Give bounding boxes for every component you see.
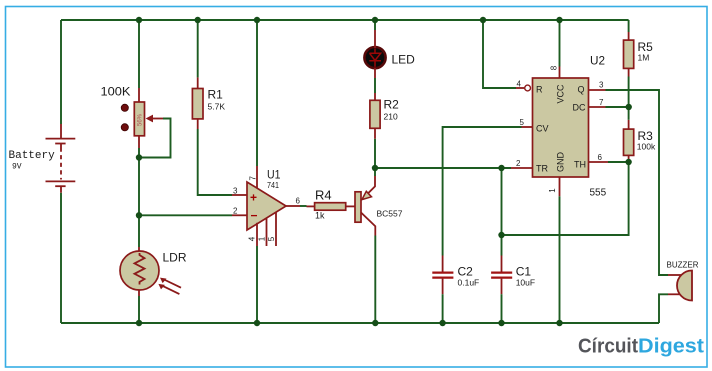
wire LDR bottom bbox=[138, 296, 140, 323]
svg-text:5: 5 bbox=[267, 236, 276, 241]
svg-text:56%: 56% bbox=[138, 113, 144, 126]
svg-text:1k: 1k bbox=[315, 210, 325, 220]
wire pot top bbox=[138, 20, 140, 88]
junction bottom C1 bbox=[498, 320, 504, 326]
svg-text:BC557: BC557 bbox=[377, 209, 403, 219]
svg-text:4: 4 bbox=[517, 80, 522, 89]
svg-text:−: − bbox=[251, 209, 258, 223]
wire trigger net bbox=[375, 167, 511, 169]
junction top VCC bbox=[556, 17, 562, 23]
svg-text:0.1uF: 0.1uF bbox=[458, 277, 480, 287]
svg-text:DC: DC bbox=[573, 102, 586, 112]
timer U2 555 bbox=[511, 53, 608, 198]
svg-text:1M: 1M bbox=[638, 52, 650, 62]
junction top pot bbox=[136, 17, 142, 23]
svg-text:2: 2 bbox=[233, 207, 238, 216]
svg-text:R1: R1 bbox=[208, 87, 224, 101]
resistor R5 1M bbox=[624, 32, 654, 77]
svg-text:LDR: LDR bbox=[163, 250, 187, 264]
wire R3 top bbox=[628, 107, 630, 120]
wire LED top bbox=[374, 20, 376, 30]
junction top R1 bbox=[195, 17, 201, 23]
svg-text:C2: C2 bbox=[458, 265, 474, 279]
svg-text:5.7K: 5.7K bbox=[208, 101, 226, 111]
svg-text:1: 1 bbox=[548, 188, 557, 193]
resistor R1 5.7K bbox=[192, 77, 225, 129]
wire Q output to buzzer bbox=[606, 90, 669, 275]
junction C1 threshold bbox=[498, 232, 504, 238]
svg-text:LED: LED bbox=[392, 53, 416, 67]
svg-text:Digest: Digest bbox=[638, 336, 704, 358]
svg-text:GND: GND bbox=[556, 152, 566, 173]
wire R1 to non-inverting input bbox=[198, 129, 232, 195]
svg-text:3: 3 bbox=[233, 186, 238, 195]
wire op-amp output bbox=[300, 205, 307, 207]
svg-text:R4: R4 bbox=[315, 187, 332, 202]
svg-text:C1: C1 bbox=[516, 265, 532, 279]
wire battery top bbox=[60, 20, 62, 124]
svg-text:VCC: VCC bbox=[556, 84, 566, 104]
potentiometer RV1 100K bbox=[101, 85, 164, 149]
svg-text:Q: Q bbox=[577, 84, 584, 94]
svg-text:BUZZER: BUZZER bbox=[667, 261, 699, 270]
junction trigger node bbox=[372, 165, 378, 171]
wire pot bottom to LDR bbox=[138, 148, 140, 247]
svg-text:9V: 9V bbox=[12, 163, 22, 172]
wire top rail bbox=[61, 19, 629, 21]
junction bottom collector bbox=[372, 320, 378, 326]
resistor R2 210 bbox=[370, 93, 399, 139]
wire R5 to R3 bbox=[628, 77, 630, 108]
svg-text:100K: 100K bbox=[101, 85, 131, 99]
svg-text:TR: TR bbox=[536, 163, 548, 173]
wire pot wiper loop bbox=[139, 119, 171, 158]
junction TH R3 bbox=[625, 159, 631, 165]
op-amp U1 741 bbox=[232, 166, 301, 246]
svg-text:555: 555 bbox=[590, 187, 607, 198]
wire C1 bottom bbox=[501, 294, 503, 323]
capacitor C1 10uF bbox=[491, 256, 535, 295]
svg-text:CV: CV bbox=[536, 123, 549, 133]
junction C1 trigger bbox=[498, 165, 504, 171]
wire CV net bbox=[443, 127, 522, 256]
wire buzzer bottom bbox=[659, 294, 668, 323]
LED D1 bbox=[364, 30, 415, 78]
battery BAT1 bbox=[9, 124, 76, 193]
wire inverting input bbox=[139, 214, 232, 216]
svg-text:741: 741 bbox=[267, 180, 279, 190]
wire TH net bbox=[608, 161, 629, 163]
wire bottom rail bbox=[61, 322, 659, 324]
svg-text:7: 7 bbox=[249, 176, 258, 181]
wire op-amp pin7 bbox=[256, 20, 258, 166]
wire emitter stub bbox=[374, 168, 376, 176]
svg-text:Battery: Battery bbox=[9, 150, 56, 162]
capacitor C2 0.1uF bbox=[432, 256, 479, 295]
junction inverting input bbox=[136, 212, 142, 218]
svg-text:4: 4 bbox=[248, 236, 257, 241]
svg-text:U2: U2 bbox=[590, 53, 605, 67]
wire R2 bottom to trigger node bbox=[374, 139, 376, 168]
resistor R4 1k bbox=[307, 187, 356, 220]
svg-text:TH: TH bbox=[574, 160, 586, 170]
junction bottom pin4 bbox=[254, 320, 260, 326]
svg-text:5: 5 bbox=[520, 118, 525, 127]
svg-text:Círcuit: Círcuit bbox=[578, 336, 638, 358]
svg-text:3: 3 bbox=[599, 81, 604, 90]
wire LED to R2 bbox=[374, 78, 376, 93]
svg-text:+: + bbox=[250, 191, 257, 205]
LDR LDR1 bbox=[120, 247, 187, 296]
svg-text:R2: R2 bbox=[384, 98, 400, 112]
buzzer BZ1 bbox=[667, 261, 699, 301]
wire op-amp pin4 to ground bbox=[256, 246, 258, 323]
wire TH to C1 link bbox=[502, 162, 629, 235]
junction top pin7 bbox=[254, 17, 260, 23]
junction top reset bbox=[480, 17, 486, 23]
wire rail to R5 bbox=[628, 20, 630, 32]
svg-text:100k: 100k bbox=[637, 141, 656, 151]
wire collector to ground bbox=[374, 236, 376, 324]
wire battery bottom bbox=[60, 193, 62, 323]
svg-text:10uF: 10uF bbox=[516, 277, 535, 287]
junction pot wiper bbox=[136, 154, 142, 160]
wire C2 bottom bbox=[442, 294, 444, 323]
svg-text:8: 8 bbox=[550, 65, 559, 70]
svg-text:6: 6 bbox=[598, 153, 603, 162]
svg-text:2: 2 bbox=[516, 159, 521, 168]
svg-text:1: 1 bbox=[257, 236, 266, 241]
junction bottom LDR bbox=[136, 320, 142, 326]
junction bottom GND bbox=[556, 320, 562, 326]
wire C1 top column bbox=[501, 168, 503, 256]
wire VCC pin8 bbox=[559, 20, 561, 67]
junction top LED bbox=[372, 17, 378, 23]
svg-text:R: R bbox=[536, 84, 543, 94]
svg-text:7: 7 bbox=[599, 98, 604, 107]
wire GND pin1 bbox=[559, 196, 561, 323]
resistor R3 100k bbox=[624, 120, 656, 162]
svg-text:6: 6 bbox=[296, 197, 301, 206]
wire R1 top bbox=[197, 20, 199, 77]
wire DC net bbox=[606, 106, 629, 108]
wire reset net bbox=[483, 20, 516, 88]
junction bottom C2 bbox=[439, 320, 445, 326]
transistor Q1 BC557 bbox=[355, 176, 403, 236]
svg-text:210: 210 bbox=[384, 111, 398, 121]
junction DC R5 R3 bbox=[626, 104, 632, 110]
